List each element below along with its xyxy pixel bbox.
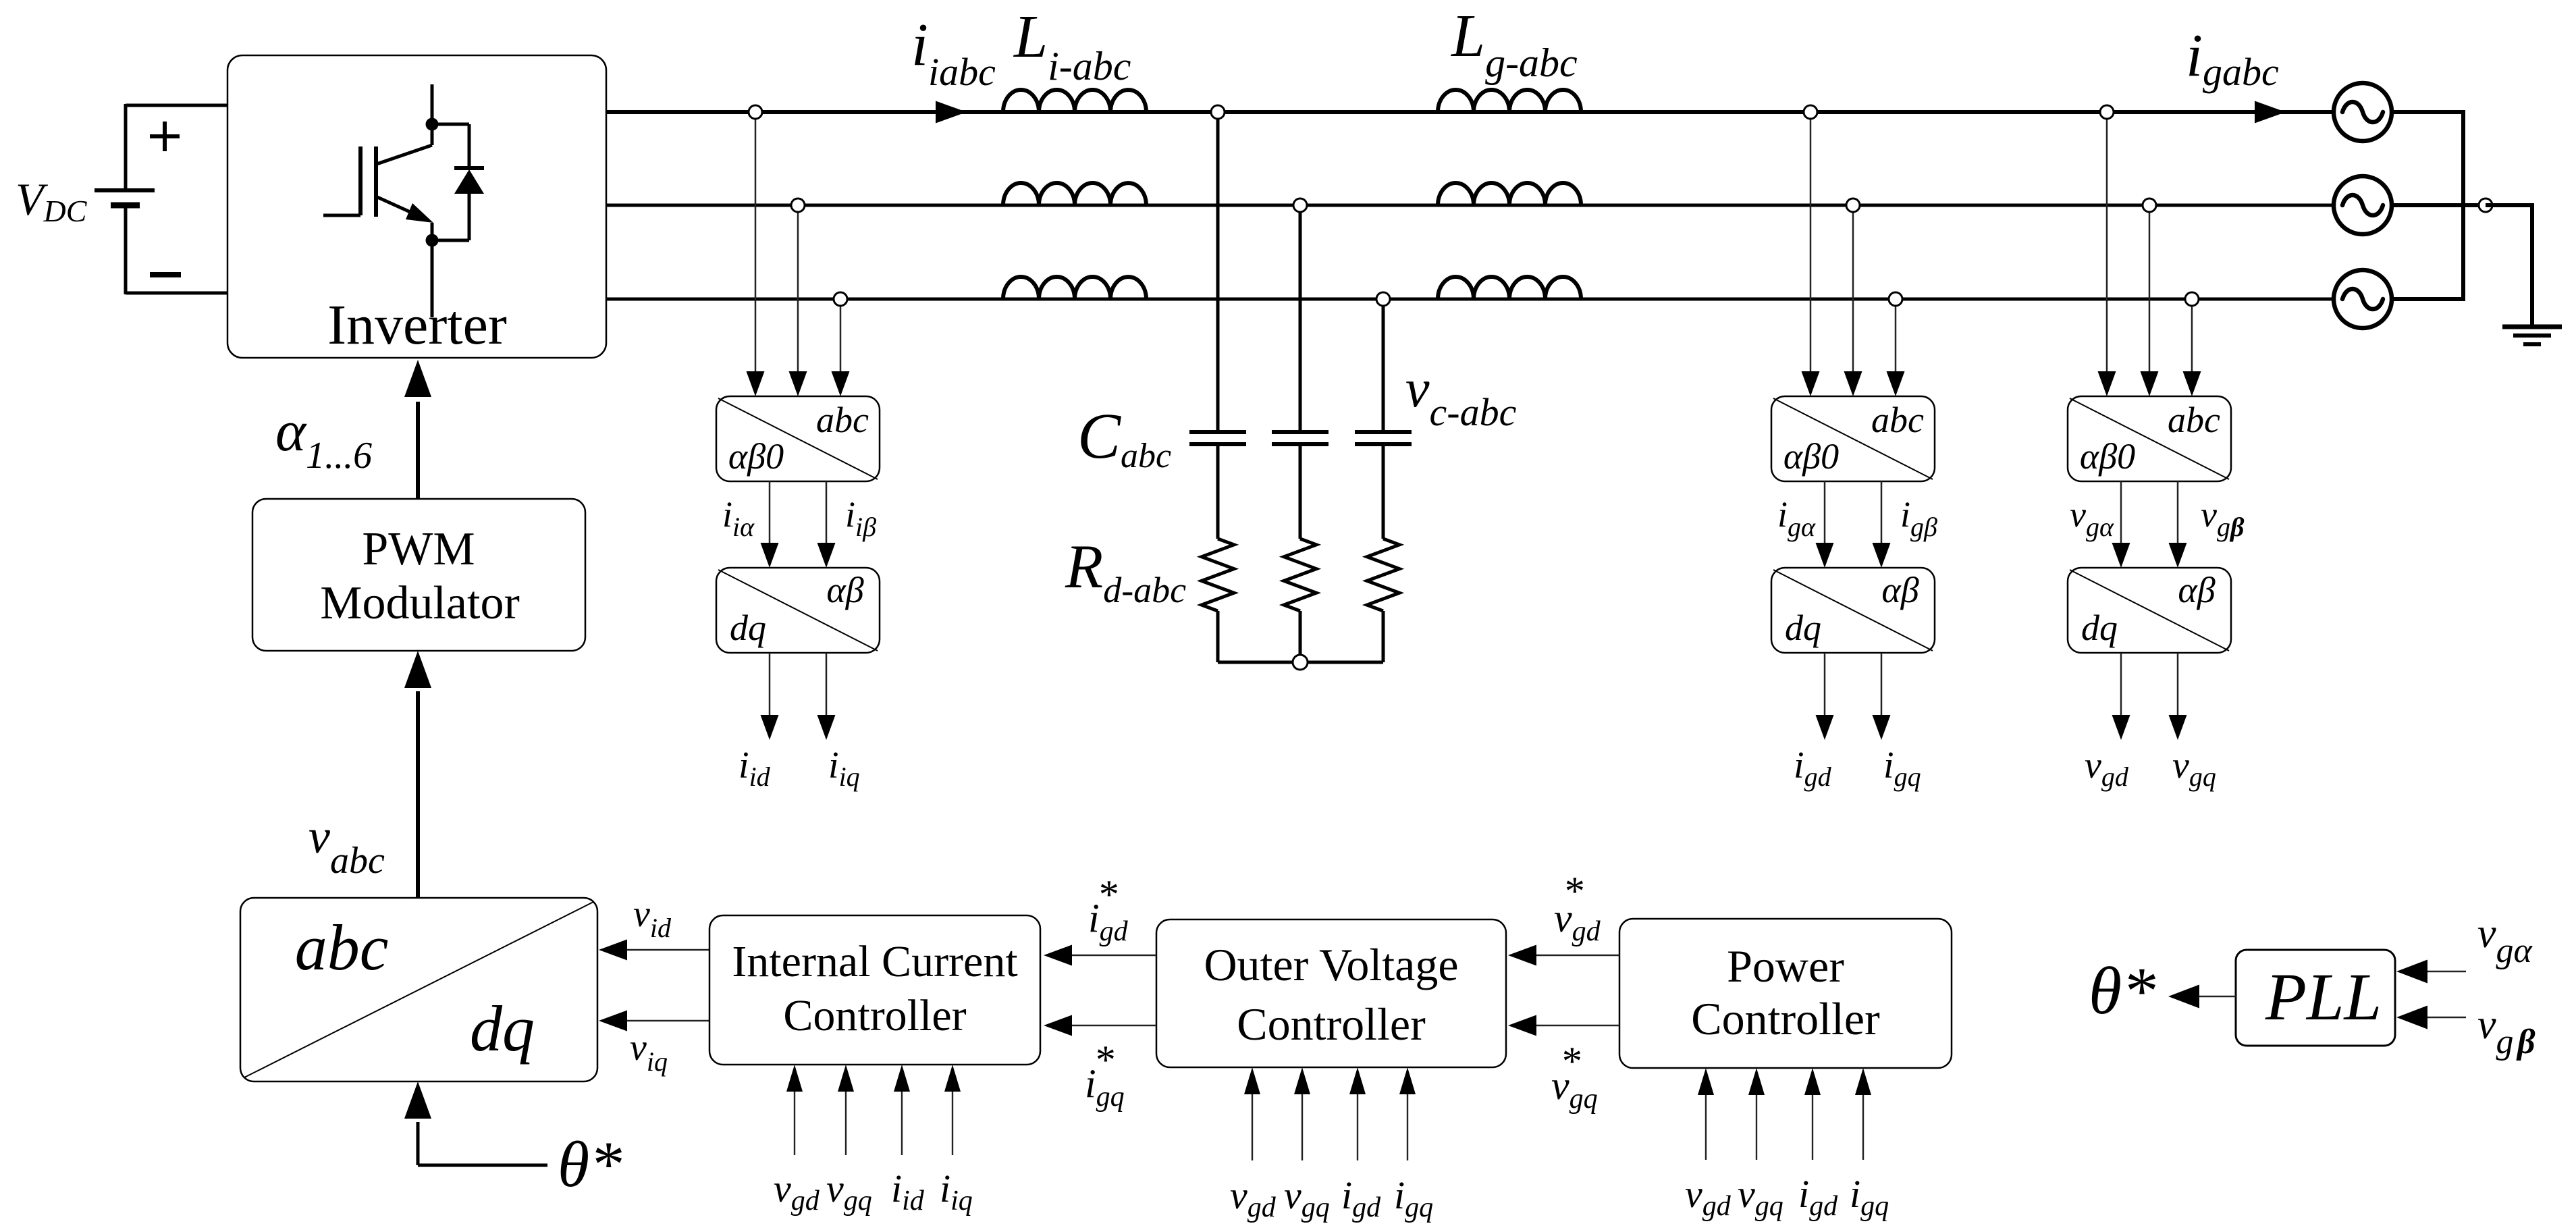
wire cap a to resistor — [1216, 444, 1220, 539]
svg-text:*: * — [1097, 872, 1117, 917]
wire capacitor neutral bus — [1218, 661, 1383, 664]
label v_galpha — [2477, 911, 2533, 970]
wire phase A line — [606, 110, 2334, 114]
arrow vg beta — [2169, 543, 2187, 568]
label C_abc — [1077, 400, 1171, 475]
inductor L_g-a — [1438, 90, 1581, 112]
label v_gbeta — [2477, 1002, 2535, 1061]
wire v_gbeta into PLL — [2396, 1006, 2466, 1030]
label R_d-abc — [1065, 532, 1186, 610]
label v_iq — [630, 1027, 668, 1077]
wire cap c to resistor — [1382, 444, 1385, 539]
wire input into voltage controller — [1244, 1067, 1260, 1160]
wire cap branch b upper — [1299, 205, 1302, 432]
label i_gabc — [2186, 22, 2279, 94]
label - polarity — [150, 272, 181, 277]
wire resistor b lead — [1299, 611, 1302, 662]
arrow into ii abc block c — [832, 371, 850, 396]
wire resistor a lead — [1216, 611, 1220, 662]
svg-text:abc: abc — [295, 911, 389, 984]
arrow ii q — [817, 715, 836, 740]
battery VDC negative lead — [124, 205, 128, 294]
wire input into power controller — [1698, 1068, 1714, 1160]
label i_gd (pc input) — [1798, 1172, 1838, 1222]
wire input into power controller — [1804, 1068, 1821, 1160]
outer voltage controller box — [1156, 919, 1506, 1067]
label i_gα — [1777, 494, 1816, 542]
svg-text:*: * — [1563, 869, 1583, 913]
wire ii d output — [769, 653, 771, 716]
arrow into ig abc block c — [1887, 371, 1905, 396]
resistor R_d-b — [1284, 539, 1316, 611]
label Outer Voltage Controller — [1204, 939, 1458, 1050]
wire ig beta output — [1881, 481, 1883, 543]
svg-text:PLL: PLL — [2265, 959, 2382, 1034]
arrow into vg abc block b — [2141, 371, 2159, 396]
wire source A to bus — [2392, 110, 2463, 114]
wire ii q output — [826, 653, 828, 716]
wire cap b to resistor — [1299, 444, 1302, 539]
wire right vertical bus — [2461, 110, 2465, 301]
wire vg tap a — [2106, 112, 2108, 373]
wire ii tap c — [840, 299, 842, 373]
svg-text:θ*: θ* — [2089, 953, 2155, 1028]
inverter box U1 — [227, 55, 606, 358]
ac source grid phase A — [2334, 83, 2392, 141]
node vg tap a — [2100, 105, 2114, 119]
wire v*_gq from PC to OVC — [1508, 1015, 1619, 1036]
label v*_gq — [1551, 1039, 1598, 1115]
svg-text:abc: abc — [816, 400, 869, 440]
label v_gd (ovc input) — [1230, 1173, 1277, 1223]
arrow from abc-dq into PWM — [404, 651, 431, 898]
label v_gq (icc input) — [826, 1167, 872, 1216]
label i_iβ — [845, 494, 876, 542]
svg-text:αβ: αβ — [1881, 570, 1918, 610]
node capacitor neutral — [1293, 655, 1308, 670]
PLL box — [2236, 950, 2395, 1046]
label v_id — [633, 893, 672, 943]
svg-text:β: β — [2516, 1023, 2535, 1061]
transform block ig alpha-beta to dq — [1771, 568, 1935, 653]
node cap tap a — [1211, 105, 1225, 119]
wire v*_gd from PC to OVC — [1508, 945, 1619, 966]
svg-text:Power: Power — [1727, 940, 1844, 992]
wire vg tap b — [2149, 205, 2151, 373]
arrow ig beta — [1873, 543, 1891, 568]
node vg tap c — [2185, 292, 2199, 306]
label L_g-abc — [1450, 3, 1578, 85]
svg-text:*: * — [1560, 1039, 1580, 1084]
label i_id (icc input) — [891, 1167, 925, 1216]
wire input into voltage controller — [1399, 1067, 1416, 1160]
label v_gα — [2070, 494, 2114, 542]
label theta* (pll output) — [2089, 953, 2155, 1028]
inductor L_i-b — [1003, 183, 1146, 205]
transistor Q1 (IGBT) — [323, 84, 439, 317]
node ii tap c — [834, 292, 847, 306]
label Inverter — [327, 294, 507, 356]
capacitor C_c — [1355, 432, 1412, 444]
node neutral junction — [2479, 198, 2492, 212]
wire input into power controller — [1748, 1068, 1765, 1160]
label + polarity — [150, 122, 180, 151]
node ig tap a — [1804, 105, 1817, 119]
arrow ii alpha — [761, 543, 779, 568]
svg-text:PWM: PWM — [362, 523, 475, 575]
internal current controller box — [709, 915, 1040, 1065]
arrow ig alpha — [1816, 543, 1834, 568]
arrow into vg abc block a — [2098, 371, 2116, 396]
wire cap branch c upper — [1382, 299, 1385, 432]
label v_gq — [2172, 745, 2216, 792]
wire v_gq into current controller — [838, 1065, 854, 1155]
label i_gq (pc input) — [1850, 1172, 1889, 1222]
label theta* (modulation) — [558, 1128, 622, 1200]
transform block vg abc to alpha-beta-0 — [2068, 396, 2231, 481]
power controller box — [1619, 919, 1952, 1068]
label v_gβ — [2201, 494, 2245, 542]
transform block ig abc to alpha-beta-0 — [1771, 396, 1935, 481]
wire ii tap a — [755, 112, 757, 373]
inductor L_i-a — [1003, 90, 1146, 112]
svg-text:αβ0: αβ0 — [2080, 436, 2135, 477]
svg-text:dq: dq — [470, 992, 535, 1065]
label i_gd (ovc input) — [1341, 1173, 1381, 1223]
wire phase B line — [606, 204, 2334, 207]
wire ii tap b — [797, 205, 799, 373]
ac source grid phase B — [2334, 176, 2392, 234]
svg-text:abc: abc — [2168, 400, 2220, 440]
diode D1 — [432, 124, 484, 240]
transform block vg alpha-beta to dq — [2068, 568, 2231, 653]
wire ii beta output — [826, 481, 828, 543]
wire v_id into abc-dq — [599, 940, 709, 961]
wire ig d output — [1824, 653, 1826, 716]
wire ig tap b — [1852, 205, 1854, 373]
wire resistor c lead — [1382, 611, 1385, 662]
wire i*_gq from OVC to ICC — [1044, 1015, 1156, 1036]
label PLL — [2265, 959, 2382, 1034]
wire DC+ from battery to inverter — [126, 104, 228, 107]
battery VDC short plate — [111, 203, 140, 209]
wire theta* into abc-dq — [404, 1081, 547, 1165]
arrow vg d — [2112, 715, 2130, 740]
wire input into voltage controller — [1349, 1067, 1366, 1160]
label v_gd (icc input) — [774, 1167, 820, 1216]
wire DC- from battery to inverter — [126, 292, 228, 295]
wire theta* output of PLL — [2168, 985, 2236, 1009]
svg-text:αβ: αβ — [2178, 570, 2215, 610]
arrow into ii abc block a — [747, 371, 765, 396]
label L_i-abc — [1013, 3, 1131, 88]
label Power Controller — [1691, 940, 1880, 1044]
arrow ig d — [1816, 715, 1834, 740]
arrow into ig abc block a — [1802, 371, 1820, 396]
svg-text:*: * — [1094, 1038, 1114, 1082]
arrow from PWM into inverter — [404, 360, 431, 499]
transform block ii alpha-beta to dq — [716, 568, 880, 653]
wire vg beta output — [2177, 481, 2179, 543]
svg-text:αβ0: αβ0 — [1783, 436, 1839, 477]
label i_gq (ovc input) — [1394, 1173, 1433, 1223]
label i_id — [739, 745, 771, 792]
capacitor C_b — [1272, 432, 1329, 444]
ac source grid phase C — [2334, 270, 2392, 328]
wire input into voltage controller — [1294, 1067, 1310, 1160]
wire input into power controller — [1855, 1068, 1871, 1160]
inductor L_g-c — [1438, 277, 1581, 299]
wire phase C line — [606, 298, 2334, 301]
wire ig alpha output — [1824, 481, 1826, 543]
svg-text:Controller: Controller — [1691, 993, 1880, 1044]
label i_gd — [1794, 745, 1832, 792]
wire vg d output — [2120, 653, 2122, 716]
svg-text:Controller: Controller — [1237, 998, 1426, 1050]
label v_gd — [2085, 745, 2129, 792]
label i*_gq — [1085, 1038, 1125, 1113]
node vg tap b — [2143, 198, 2156, 212]
wire vg q output — [2177, 653, 2179, 716]
resistor R_d-a — [1202, 539, 1234, 611]
wire ig tap a — [1810, 112, 1812, 373]
arrow ii beta — [817, 543, 836, 568]
wire cap branch a upper — [1216, 112, 1220, 432]
svg-text:dq: dq — [2081, 608, 2118, 648]
wire ii alpha output — [769, 481, 771, 543]
svg-text:dq: dq — [730, 608, 766, 648]
svg-text:Modulator: Modulator — [320, 577, 520, 629]
current arrow i_gabc — [2255, 101, 2286, 124]
wire ig q output — [1881, 653, 1883, 716]
arrow vg alpha — [2112, 543, 2130, 568]
svg-text:αβ: αβ — [826, 570, 863, 610]
arrow into vg abc block c — [2183, 371, 2201, 396]
inductor L_i-c — [1003, 277, 1146, 299]
arrow ii d — [761, 715, 779, 740]
arrow into ii abc block b — [789, 371, 807, 396]
label i_iα — [722, 494, 755, 542]
node cap tap b — [1293, 198, 1307, 212]
node ii tap a — [749, 105, 762, 119]
wire source B to neutral node — [2392, 203, 2486, 207]
node ig tap c — [1889, 292, 1902, 306]
transform block abc to dq (modulation) — [240, 898, 597, 1081]
wire vg alpha output — [2120, 481, 2122, 543]
label Internal Current Controller — [732, 937, 1017, 1040]
transform block ii abc to alpha-beta-0 — [716, 396, 880, 481]
label v_gq (pc input) — [1738, 1172, 1783, 1222]
battery VDC positive lead — [124, 104, 128, 190]
label i*_gd — [1088, 872, 1129, 947]
svg-text:αβ0: αβ0 — [728, 436, 784, 477]
arrow ig q — [1873, 715, 1891, 740]
label v_gq (ovc input) — [1284, 1173, 1330, 1223]
wire i_id into current controller — [894, 1065, 910, 1155]
label v*_gd — [1554, 869, 1601, 947]
current arrow i_iabc — [936, 101, 967, 124]
node cap tap c — [1376, 292, 1390, 306]
svg-text:Internal Current: Internal Current — [732, 937, 1017, 986]
node ii tap b — [791, 198, 805, 212]
arrow vg q — [2169, 715, 2187, 740]
wire neutral to ground — [2486, 205, 2534, 327]
label VDC — [16, 173, 88, 228]
label PWM Modulator — [320, 523, 520, 629]
wire i*_gd from OVC to ICC — [1044, 945, 1156, 966]
wire v_gd into current controller — [786, 1065, 803, 1155]
label alpha_1..6 — [275, 398, 372, 477]
svg-text:Controller: Controller — [783, 991, 966, 1040]
arrow into ig abc block b — [1844, 371, 1862, 396]
inductor L_g-b — [1438, 183, 1581, 205]
PWM modulator box — [252, 499, 585, 651]
node ig tap b — [1846, 198, 1860, 212]
ground symbol — [2502, 327, 2562, 344]
resistor R_d-c — [1367, 539, 1399, 611]
wire v_galpha into PLL — [2396, 960, 2466, 984]
battery VDC long plate — [95, 188, 155, 192]
label i_gβ — [1900, 494, 1937, 542]
label i_iq — [828, 745, 860, 792]
wire vg tap c — [2191, 299, 2193, 373]
svg-text:abc: abc — [1871, 400, 1924, 440]
label v_gd (pc input) — [1685, 1172, 1732, 1222]
label i_iq (icc input) — [940, 1167, 973, 1216]
wire source C to bus — [2392, 297, 2463, 301]
wire i_iq into current controller — [944, 1065, 961, 1155]
capacitor C_a — [1189, 432, 1246, 444]
svg-text:Outer Voltage: Outer Voltage — [1204, 939, 1458, 990]
svg-text:Inverter: Inverter — [327, 294, 507, 356]
label v_c-abc — [1405, 359, 1517, 434]
svg-text:θ*: θ* — [558, 1128, 622, 1200]
label v_abc — [308, 809, 385, 882]
wire v_iq into abc-dq — [599, 1011, 709, 1032]
wire ig tap c — [1895, 299, 1897, 373]
svg-text:dq: dq — [1785, 608, 1821, 648]
label i_gq — [1883, 745, 1921, 792]
label i_iabc — [911, 11, 996, 94]
